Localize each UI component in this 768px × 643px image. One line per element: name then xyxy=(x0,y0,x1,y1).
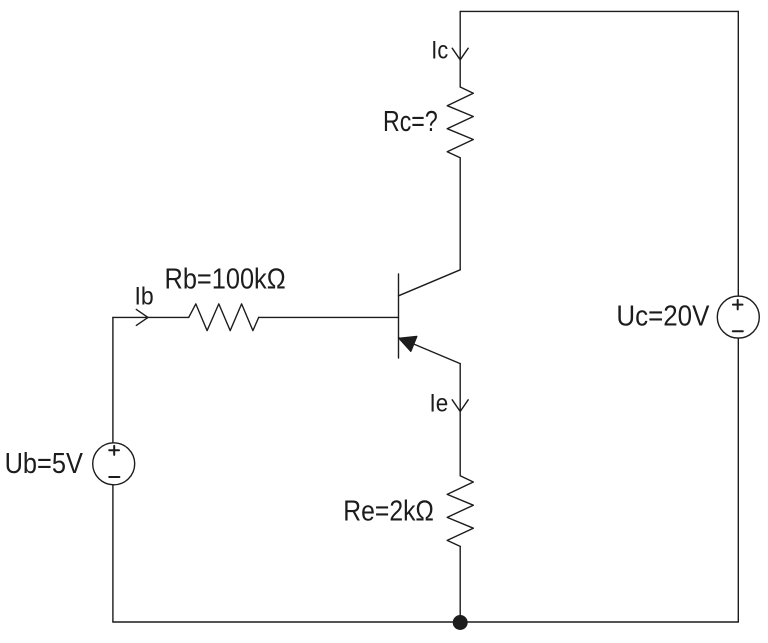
source Ub xyxy=(93,443,135,485)
junction dot xyxy=(453,615,468,630)
current arrow Ie xyxy=(452,400,468,412)
wire base left segment xyxy=(113,316,189,318)
wire collector top xyxy=(459,11,461,87)
svg-text:Rb=100kΩ: Rb=100kΩ xyxy=(165,264,286,296)
svg-text:Ie: Ie xyxy=(430,389,449,417)
svg-text:Uc=20V: Uc=20V xyxy=(616,301,709,333)
wire top rail xyxy=(460,10,738,12)
svg-text:Ib: Ib xyxy=(135,283,154,311)
resistor Rc xyxy=(447,87,473,158)
wire emitter bottom xyxy=(459,546,461,622)
wire right rail upper xyxy=(737,11,739,296)
wire emitter vertical xyxy=(459,364,461,476)
transistor Q1 xyxy=(399,270,461,364)
wire base right segment xyxy=(259,316,399,318)
wire bottom rail xyxy=(113,621,738,623)
source Uc xyxy=(717,296,759,338)
resistor Rb xyxy=(189,304,259,331)
wire left rail upper xyxy=(112,317,114,442)
current arrow Ic xyxy=(452,48,468,60)
svg-text:Ub=5V: Ub=5V xyxy=(5,448,83,480)
current arrow Ib xyxy=(136,309,148,325)
resistor Re xyxy=(447,476,473,547)
wire collector vertical xyxy=(459,158,461,270)
svg-text:Re=2kΩ: Re=2kΩ xyxy=(343,496,434,528)
wire left rail lower xyxy=(112,485,114,622)
svg-text:Rc=?: Rc=? xyxy=(383,106,438,138)
svg-text:Ic: Ic xyxy=(431,37,448,65)
wire right rail lower xyxy=(737,338,739,622)
